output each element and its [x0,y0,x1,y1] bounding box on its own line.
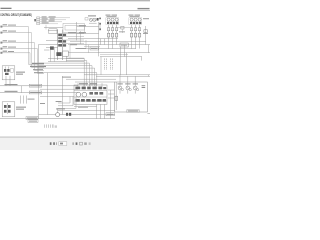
travel pilot valve PV2 internals [4,105,11,113]
wire labels left column [3,24,16,52]
cluster label [79,83,88,84]
connector block labels [42,16,56,23]
H6 label [5,84,18,85]
staircase wire S6 [39,73,97,86]
valve block VB1 [50,46,54,49]
wire L2 [2,32,32,34]
pump P2 down wires [100,22,117,45]
bottom drain wires [39,104,116,118]
staircase wire S4 [39,66,93,86]
pre valve row P2 [107,28,117,31]
bus vertical V5 [29,53,31,65]
connector plug 4 [0,48,2,50]
connector block wires [40,18,70,30]
pre valve row M1 [130,28,140,31]
mid mesh verticals [86,40,89,53]
shuttle box [144,30,148,33]
misc text B [143,32,148,35]
mid label small box [90,47,98,50]
pilot valve PV1 stems [5,67,10,86]
mid wire y46.6 [84,46,100,48]
toolbar prev icon [50,142,52,145]
bus wire H5b [100,54,128,56]
pump P2 bracket [109,25,117,33]
toolbar page field [59,142,67,146]
wire L3 [2,42,35,44]
return line pair [84,74,150,76]
tank bottom label [127,110,139,113]
bus wire H1b [70,41,146,43]
motor M1 base band [130,22,141,24]
bus wire H2 [68,44,150,46]
connector block CB1 [34,17,39,25]
header rule [0,9,150,11]
toolbar next icon [53,142,55,145]
wire L5 [2,52,30,54]
pilot dashed ladder B [110,59,112,71]
mid bottom label [56,108,65,109]
toolbar page count [76,142,78,145]
staircase wire S5 [39,68,95,86]
branch ticks with labels [29,64,45,73]
staircase wire S3 [39,63,90,86]
pilot dashed ladder A [103,59,105,71]
stub wire at x38 [39,44,47,46]
travel pilot risers [21,96,27,104]
nested box inner [65,25,84,30]
toolbar page text [60,143,63,145]
stack text fragments [68,32,76,33]
travel pilot valve PV2 outline [2,102,15,117]
svg-text:CONTROL CIRCUIT (STANDARD): CONTROL CIRCUIT (STANDARD) [0,13,31,17]
corner wire C2 [58,96,73,105]
long wire H6 [0,85,78,87]
H7 dest box [29,91,42,94]
tank pump T1 [118,86,122,90]
tank pump risers [120,75,135,94]
H6 dest box [29,84,42,87]
stack side ticks [50,48,66,62]
suction label box [106,113,114,116]
bus vertical V2 [31,33,33,68]
bus wire H4 [68,52,150,54]
pump P1 marks [90,19,96,21]
stack right vertical [69,45,71,59]
cluster circles [76,92,87,97]
check valve CV4 [130,33,132,37]
valve stack cross lines [44,28,84,62]
nested box outer [63,23,84,32]
cluster row1 valves [75,87,106,90]
connector plug 5 [0,52,2,54]
check valve CV1 [107,33,109,37]
staircase wire S2 [66,61,87,86]
toolbar sep [55,142,58,145]
pilot valve PV1 label [16,72,25,75]
valve block VB2 [56,52,61,56]
return label [62,77,71,78]
wire L4 [2,48,38,50]
cluster feed wires left [39,45,75,119]
travel motor group M1 [130,18,141,21]
header right text [138,8,150,9]
solenoid valve SV2 [58,37,62,39]
junction verticals [101,39,149,75]
bus vertical V3 [34,43,36,71]
tank strainer [115,96,118,100]
drain vertical [100,57,102,75]
inter-cluster box [121,26,124,29]
tank pump T2 aux [129,89,131,91]
tank pump T1 aux [121,89,123,91]
travel pilot valve PV2 stem [6,103,8,114]
pilot valve PV1 internals [4,69,10,75]
pump wire labels [79,25,86,33]
cluster inner rails [74,91,107,101]
main pump P1 [89,18,96,21]
toolbar zoom icon [84,142,87,145]
bottom long wire H8 [0,118,115,120]
valve stack rails [58,30,63,61]
footer divider [0,137,150,138]
connector plug 1 [0,26,2,28]
right edge drop [148,75,150,77]
pump P1 side box [85,18,88,20]
tank pump labels [117,83,145,88]
bus wire H3 [75,48,136,50]
riser label [28,99,35,100]
tank pump marks [119,87,137,90]
toolbar paren [73,142,74,145]
valve stack outline box [49,29,57,34]
mid text fragment [76,48,86,49]
footer bar [0,138,150,150]
H7 label [5,91,18,92]
pump P1 label [88,15,96,16]
top window edge [0,0,150,2]
corner wire C1 [58,96,70,103]
header left text [1,8,12,9]
bus wire H1 [68,38,118,40]
pump P2 outline box [106,18,119,25]
pilot pump small [56,113,60,117]
cluster outline [74,85,107,104]
bus vertical V4 [37,49,39,74]
corner label [56,101,62,102]
motor M1 label [129,15,134,16]
bus vertical V1 [28,27,30,65]
cluster mid valves [89,92,103,95]
staircase wire S1 [66,58,84,86]
motor M1 side label [143,18,149,19]
motor M1 bracket [132,25,140,33]
mid wire H6b [40,88,78,90]
motor M1 outline box [129,18,142,25]
signal control valve cluster [74,83,107,104]
bus wire H5 [100,56,142,58]
misc text A [119,30,125,33]
wire L1 [2,26,29,28]
cluster top stems [78,83,102,87]
pump P1 top mark [97,18,99,21]
relief box [63,51,69,56]
stack second column cells [63,34,66,47]
tank left drop [115,82,117,110]
solenoid valve SV1 [58,34,62,37]
pump P2 label [106,15,111,16]
travel pilot valve PV2 label [16,107,26,110]
pump P1 drain line [77,22,99,56]
pilot valve PV1 outline [2,66,15,80]
inter-cluster wire [118,27,130,29]
corner wire C3 [58,96,76,108]
H8 dest box A [26,117,38,120]
stack exit wires [63,31,84,44]
tank pump T3 aux [137,89,139,91]
hydraulic tank box [114,82,147,112]
pump P2 base band [107,22,118,24]
gauge ticks [99,18,101,30]
left riser label [40,103,45,104]
toolbar zoomout [80,142,83,145]
tank feed vertical [110,90,112,119]
tank right stub [147,113,150,115]
tank pump T2 [126,86,130,90]
pump feed vertical [76,22,78,41]
solenoid valve SV3 [58,44,62,47]
page stamp ticks [44,124,57,127]
riser between H6 H7 [21,86,23,93]
check valve CV6 [138,33,140,37]
cluster exit wires right [108,90,115,98]
pilot pump stub [57,108,59,113]
pilot valve PV1 side port [10,69,13,73]
filter marks [66,113,71,116]
solenoid valve SV2b [58,40,62,43]
connector plug 2 [0,32,2,34]
return line lower [66,78,116,80]
connector plug 3 [0,42,2,44]
orifice label text [121,44,127,45]
cluster row3 valves [75,99,106,102]
cluster bottom label [78,107,88,108]
toolbar expand icon [89,142,91,145]
motor M1 down wires [132,26,146,49]
pilot pump group P2 [107,18,118,21]
check valve CV5 [134,33,136,37]
check valve CV3 [115,33,117,37]
long wire H7 [0,92,78,94]
tank pump T3 [133,86,137,90]
orifice label box [120,43,128,47]
check valve CV2 [111,33,113,37]
H8 dest box B [28,120,38,123]
